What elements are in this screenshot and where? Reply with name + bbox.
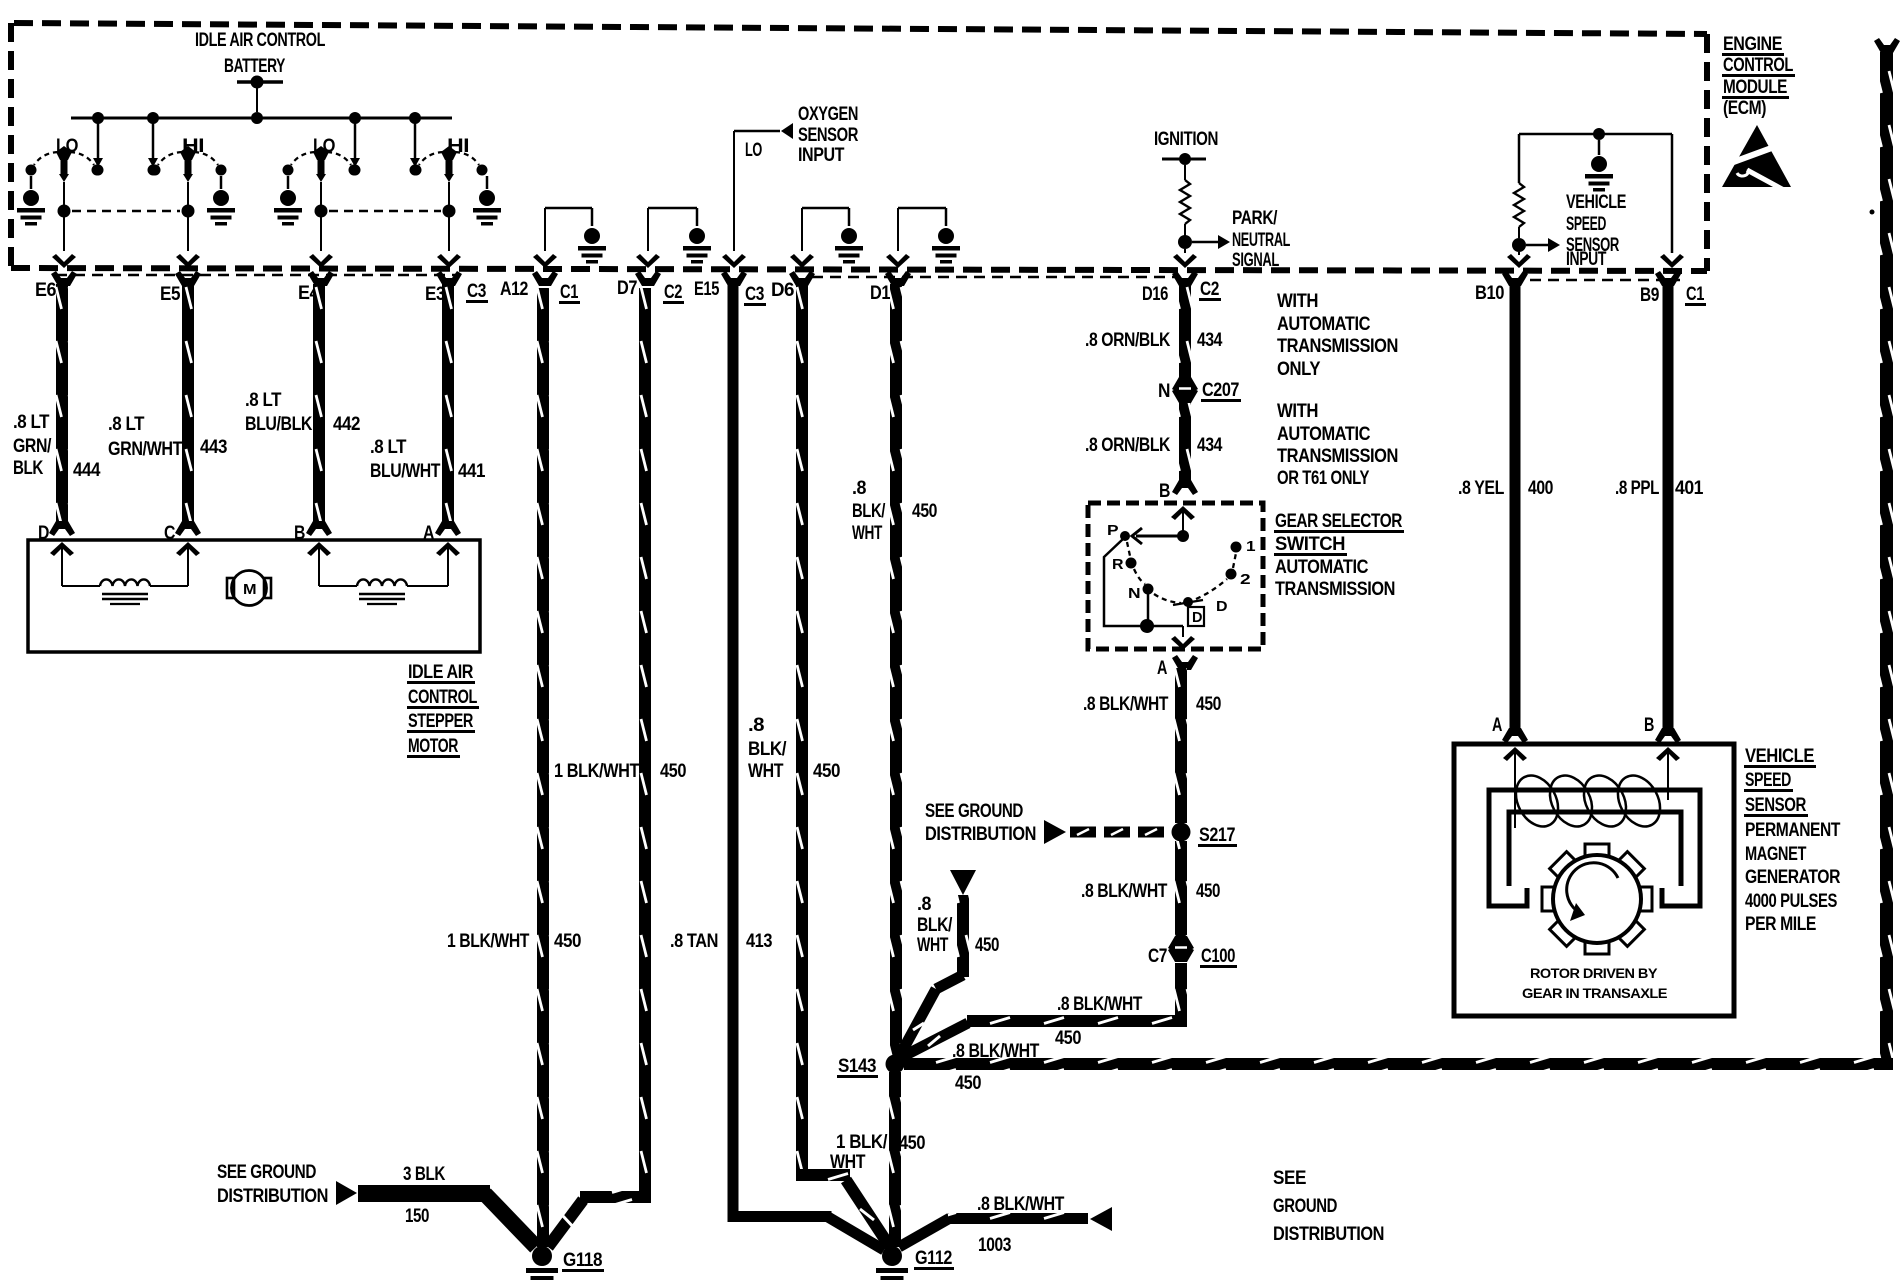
winding 1 (D-C) — [62, 585, 100, 587]
svg-text:.8 BLK/WHT: .8 BLK/WHT — [1083, 694, 1169, 715]
contact dashed curves — [291, 152, 315, 165]
TAN wire run to G112 — [728, 1211, 832, 1222]
svg-text:MODULE: MODULE — [1723, 77, 1787, 98]
svg-text:WHT: WHT — [830, 1152, 866, 1173]
off-page arrow (3 BLK) — [336, 1181, 357, 1205]
terminal at IAC motor x=62 — [49, 521, 75, 536]
arrow into pin D16 — [1173, 254, 1197, 268]
junction node — [315, 205, 328, 218]
svg-text:OXYGEN: OXYGEN — [798, 104, 858, 125]
selector wiper node — [1177, 530, 1189, 542]
svg-text:.8: .8 — [917, 894, 931, 915]
svg-text:.8 YEL: .8 YEL — [1458, 478, 1505, 499]
wire .8 BLK/WHT 450 (S217 to C100) — [1175, 841, 1187, 941]
junction node — [182, 205, 195, 218]
svg-text:A: A — [1492, 715, 1503, 736]
svg-text:BLK/: BLK/ — [917, 915, 953, 936]
svg-text:WHT: WHT — [748, 761, 784, 782]
svg-text:450: 450 — [912, 501, 937, 522]
svg-text:.8 BLK/WHT: .8 BLK/WHT — [1057, 994, 1143, 1015]
svg-text:D16: D16 — [1142, 284, 1168, 305]
splice S143 — [886, 1055, 905, 1074]
svg-text:1 BLK/WHT: 1 BLK/WHT — [447, 931, 530, 952]
right edge riser connector top — [1874, 38, 1900, 53]
arrow into ECM connector — [309, 254, 333, 268]
ECM connector terminal at x=734 — [721, 271, 747, 286]
pickup coil — [1508, 768, 1567, 834]
svg-text:443: 443 — [200, 437, 227, 458]
off-page triangle (stub) — [950, 870, 976, 895]
ECM connector terminal at x=1668 — [1655, 271, 1681, 286]
svg-text:.8 LT: .8 LT — [370, 437, 407, 458]
svg-text:SPEED: SPEED — [1745, 770, 1791, 791]
svg-text:OR T61 ONLY: OR T61 ONLY — [1277, 468, 1370, 489]
svg-text:C1: C1 — [560, 282, 579, 303]
ECM connector terminal at x=1515 — [1502, 271, 1528, 286]
rotor gear — [1542, 844, 1652, 954]
svg-text:E5: E5 — [160, 284, 181, 305]
svg-text:P: P — [1107, 522, 1119, 539]
svg-text:.8 TAN: .8 TAN — [670, 931, 718, 952]
contact D — [1183, 597, 1193, 607]
svg-text:.8 PPL: .8 PPL — [1615, 478, 1660, 499]
splice S217 — [1172, 823, 1191, 842]
motor winding arrow C — [176, 542, 200, 556]
junction node — [443, 205, 456, 218]
bus junction at x=257 — [251, 112, 263, 124]
svg-text:WHT: WHT — [917, 935, 949, 956]
wire 1 BLK/WHT 450 (C2-D7) — [639, 288, 651, 1197]
arrow up at B inside VSS — [1656, 747, 1680, 761]
ground G118 — [526, 1246, 558, 1280]
svg-text:450: 450 — [1196, 881, 1220, 902]
svg-text:C7: C7 — [1148, 946, 1167, 967]
svg-text:444: 444 — [73, 460, 101, 481]
svg-text:D: D — [38, 523, 49, 544]
svg-text:450: 450 — [1196, 694, 1221, 715]
wiper arrowhead at P — [1132, 528, 1142, 544]
contact P — [1120, 531, 1130, 541]
svg-text:BLU/WHT: BLU/WHT — [370, 461, 441, 482]
svg-text:400: 400 — [1528, 478, 1553, 499]
ECM internal ground pull at pin x=898 — [897, 208, 899, 251]
svg-text:.8 BLK/WHT: .8 BLK/WHT — [1081, 881, 1168, 902]
svg-text:E6: E6 — [35, 280, 56, 301]
svg-text:1003: 1003 — [978, 1235, 1011, 1256]
svg-text:PARK/: PARK/ — [1232, 208, 1278, 229]
svg-text:450: 450 — [1055, 1028, 1081, 1049]
svg-text:.8 ORN/BLK: .8 ORN/BLK — [1085, 330, 1171, 351]
svg-text:.8: .8 — [748, 715, 764, 736]
terminal B of gear selector switch — [1172, 480, 1198, 495]
svg-text:VEHICLE: VEHICLE — [1745, 746, 1814, 767]
svg-text:A12: A12 — [500, 279, 528, 300]
wire .8 LT GRN/WHT 443 (E5-C) — [182, 284, 194, 522]
svg-text:M: M — [243, 581, 256, 598]
motor winding arrow A — [436, 542, 460, 556]
svg-text:.8 BLK/WHT: .8 BLK/WHT — [952, 1041, 1040, 1062]
svg-text:S217: S217 — [1199, 825, 1235, 846]
magnet core — [1489, 790, 1700, 906]
svg-text:IDLE AIR: IDLE AIR — [408, 662, 474, 683]
svg-text:413: 413 — [746, 931, 772, 952]
motor symbol M — [232, 571, 267, 606]
ground for LO driver — [30, 176, 33, 189]
ECM connector terminal at x=449 — [436, 271, 462, 286]
svg-text:.8: .8 — [852, 478, 866, 499]
resistor (coil) symbol — [1180, 180, 1190, 224]
connector C207 upper half — [1172, 377, 1198, 392]
contact 2 — [1226, 569, 1237, 580]
arrow into ECM connector — [437, 254, 461, 268]
dashed link between LO/HI junction nodes (pair 2) — [329, 210, 441, 213]
wire D6 drop to G112 — [846, 1180, 890, 1247]
svg-text:CONTROL: CONTROL — [408, 687, 478, 708]
svg-text:450: 450 — [813, 761, 840, 782]
svg-text:434: 434 — [1197, 330, 1223, 351]
wire .8 BLK/WHT 450 (A to S217) — [1175, 668, 1187, 823]
VEHICLE SPEED SENSOR box — [1454, 744, 1734, 1016]
svg-text:WITH: WITH — [1277, 291, 1318, 312]
svg-text:3 BLK: 3 BLK — [403, 1164, 446, 1185]
svg-text:PER MILE: PER MILE — [1745, 914, 1816, 935]
svg-text:C1: C1 — [1686, 284, 1705, 305]
svg-text:SPEED: SPEED — [1566, 214, 1606, 235]
svg-text:1: 1 — [1246, 538, 1255, 555]
battery feed line into contact x=415 — [414, 121, 417, 160]
svg-text:.8 ORN/BLK: .8 ORN/BLK — [1085, 435, 1171, 456]
svg-text:.8 LT: .8 LT — [108, 414, 145, 435]
VSS input circuit inside ECM — [1519, 133, 1672, 136]
ECM internal ground pull at pin x=648 — [647, 208, 649, 251]
junction node — [58, 205, 71, 218]
svg-text:SENSOR: SENSOR — [798, 125, 859, 146]
wire .8 TAN 413 (C3-E15) — [728, 284, 739, 1217]
svg-text:IGNITION: IGNITION — [1154, 129, 1218, 150]
wire .8 LT BLU/BLK 442 (E4-B) — [313, 284, 325, 522]
wire .8 BLK/WHT 450 (D6) — [796, 284, 808, 1175]
svg-text:C207: C207 — [1202, 380, 1239, 401]
svg-text:401: 401 — [1675, 478, 1704, 499]
svg-text:D: D — [1192, 609, 1203, 626]
contact 1 — [1231, 542, 1242, 553]
bus junction at x=153 — [147, 112, 159, 124]
svg-text:.8 BLK/WHT: .8 BLK/WHT — [977, 1194, 1065, 1215]
wire .8 ORN/BLK 434 upper — [1179, 284, 1191, 382]
svg-text:MAGNET: MAGNET — [1745, 844, 1807, 865]
svg-text:N: N — [1128, 585, 1140, 602]
bus junction at x=98 — [92, 112, 104, 124]
off-page arrow (1003) — [1090, 1207, 1112, 1231]
svg-text:SENSOR: SENSOR — [1745, 795, 1807, 816]
svg-text:CONTROL: CONTROL — [1723, 55, 1794, 76]
svg-text:GEAR SELECTOR: GEAR SELECTOR — [1275, 511, 1403, 532]
svg-text:GRN/: GRN/ — [13, 436, 52, 457]
boxed D indicator — [1188, 607, 1204, 626]
contact dashed curves — [158, 152, 182, 165]
IDLE AIR CONTROL STEPPER MOTOR box — [28, 540, 480, 652]
svg-text:D7: D7 — [617, 278, 637, 299]
wire 1 BLK/WHT 450 (C1-A12) to G118 — [537, 288, 549, 1247]
svg-text:SEE GROUND: SEE GROUND — [217, 1162, 316, 1183]
svg-text:SEE: SEE — [1273, 1168, 1306, 1189]
wire .8 LT BLU/WHT 441 (E3-A) — [442, 284, 454, 522]
svg-text:C3: C3 — [467, 281, 486, 302]
stray printed dot — [1870, 210, 1875, 215]
svg-text:AUTOMATIC: AUTOMATIC — [1277, 314, 1371, 335]
svg-text:A: A — [1157, 658, 1168, 679]
ECM internal ground pull at pin x=545 — [544, 208, 546, 251]
terminal at IAC motor x=188 — [175, 521, 201, 536]
ground for LO driver — [287, 176, 290, 189]
svg-text:G112: G112 — [915, 1248, 952, 1269]
wire 3 BLK 150 — [358, 1185, 490, 1202]
ECM connector terminal at x=802 — [789, 271, 815, 286]
terminal B of VSS — [1655, 728, 1681, 743]
dashed detent arc segments — [1127, 542, 1130, 556]
svg-text:GROUND: GROUND — [1273, 1196, 1337, 1217]
svg-text:450: 450 — [955, 1073, 981, 1094]
dashed wire to S217 — [1070, 827, 1096, 838]
dashed link between LO/HI junction nodes (pair 1) — [72, 210, 180, 213]
park/neutral junction node — [1178, 235, 1192, 249]
svg-text:SEE GROUND: SEE GROUND — [925, 801, 1023, 822]
ECM dashed boundary box — [14, 23, 1707, 34]
ECM connector terminal at x=188 — [175, 271, 201, 286]
wire C2 drop to G118 — [548, 1200, 583, 1247]
svg-text:S143: S143 — [838, 1056, 876, 1077]
wire .8 BLK/WHT 450 horizontal to S143 — [967, 1015, 1187, 1027]
battery bus — [71, 117, 452, 120]
svg-text:434: 434 — [1197, 435, 1223, 456]
bus junction at x=415 — [409, 112, 421, 124]
svg-text:C2: C2 — [664, 282, 682, 303]
arrow into pin B9 — [1660, 254, 1684, 268]
svg-text:WITH: WITH — [1277, 401, 1318, 422]
svg-text:.8 LT: .8 LT — [13, 412, 50, 433]
wire .8 ORN/BLK 434 lower — [1179, 403, 1191, 484]
svg-text:C3: C3 — [745, 284, 764, 305]
wire .8 BLK/WHT 1003 — [899, 1218, 950, 1247]
off-page arrow OXYGEN SENSOR INPUT — [781, 123, 793, 139]
svg-text:BLU/BLK: BLU/BLK — [245, 414, 313, 435]
svg-text:BLK/: BLK/ — [852, 501, 886, 522]
wire .8 BLK/WHT 450 (D1) upper — [890, 284, 902, 1057]
svg-text:(ECM): (ECM) — [1723, 98, 1766, 119]
svg-text:MOTOR: MOTOR — [408, 736, 459, 757]
ECM connector terminal at x=321 — [308, 271, 334, 286]
battery feed line into contact x=98 — [97, 121, 100, 160]
svg-text:TRANSMISSION: TRANSMISSION — [1277, 446, 1398, 467]
svg-text:E15: E15 — [694, 279, 720, 300]
svg-text:450: 450 — [899, 1133, 925, 1154]
svg-text:2: 2 — [1240, 571, 1250, 588]
resistor (VSS input) — [1514, 183, 1524, 227]
svg-text:INPUT: INPUT — [1566, 249, 1607, 270]
ESD sensitivity symbol — [1722, 125, 1791, 187]
svg-text:441: 441 — [458, 461, 486, 482]
svg-text:A: A — [423, 523, 435, 544]
svg-text:450: 450 — [660, 761, 686, 782]
svg-text:DISTRIBUTION: DISTRIBUTION — [925, 824, 1036, 845]
connector C100 lower half — [1168, 947, 1194, 962]
svg-text:BLK: BLK — [13, 458, 44, 479]
arrow up at A inside VSS — [1503, 747, 1527, 761]
svg-text:150: 150 — [405, 1206, 429, 1227]
motor winding arrow B — [307, 542, 331, 556]
arrow into ECM connector — [176, 254, 200, 268]
contact D tangent line — [1173, 600, 1203, 605]
connector C207 lower half — [1172, 388, 1198, 403]
svg-text:442: 442 — [333, 414, 360, 435]
arrow to VEHICLE SPEED SENSOR INPUT label — [1548, 238, 1560, 252]
internal ground symbol — [1585, 156, 1613, 192]
motor winding arrow D — [50, 542, 74, 556]
ECM connector terminal at x=64 — [51, 271, 77, 286]
svg-text:DISTRIBUTION: DISTRIBUTION — [1273, 1224, 1384, 1245]
oxygen sensor input line (E15/C3) — [733, 131, 735, 251]
svg-text:B: B — [1644, 715, 1654, 736]
svg-text:TRANSMISSION: TRANSMISSION — [1275, 579, 1395, 600]
svg-text:R: R — [1112, 556, 1124, 573]
ECM connector terminal at x=648 — [635, 271, 661, 286]
battery feed line into contact x=355 — [354, 121, 357, 160]
svg-text:B9: B9 — [1640, 285, 1659, 306]
ECM connector terminal at x=1185 — [1172, 271, 1198, 286]
wire .8 BLK/WHT 450 right edge riser — [1880, 52, 1893, 1058]
svg-text:ENGINE: ENGINE — [1723, 34, 1782, 55]
svg-text:C2: C2 — [1200, 279, 1219, 300]
off-page arrow to S217 — [1044, 820, 1066, 844]
contact N — [1143, 584, 1154, 595]
ECM connector terminal at x=545 — [532, 271, 558, 286]
GEAR SELECTOR SWITCH dashed box — [1088, 503, 1263, 649]
svg-text:450: 450 — [975, 935, 999, 956]
svg-text:B: B — [1159, 481, 1170, 502]
arrow into pin B10 — [1507, 254, 1531, 268]
svg-text:STEPPER: STEPPER — [408, 711, 474, 732]
svg-text:SWITCH: SWITCH — [1275, 534, 1345, 555]
wire .8 BLK/WHT 450 long run to right edge — [904, 1058, 1893, 1070]
ECM internal ground pull at pin x=802 — [801, 208, 803, 251]
svg-text:AUTOMATIC: AUTOMATIC — [1277, 424, 1371, 445]
connector body thin dashed line (right C1 connector) — [1512, 279, 1680, 282]
svg-text:G118: G118 — [563, 1250, 602, 1271]
right edge riser corner — [1880, 1056, 1893, 1070]
svg-text:INPUT: INPUT — [798, 145, 845, 166]
svg-text:1 BLK/: 1 BLK/ — [836, 1132, 888, 1153]
svg-text:D6: D6 — [771, 280, 794, 301]
svg-text:ONLY: ONLY — [1277, 359, 1321, 380]
svg-text:B10: B10 — [1475, 283, 1504, 304]
battery feed node — [237, 80, 283, 84]
contact R — [1126, 558, 1137, 569]
svg-text:C: C — [164, 523, 176, 544]
svg-text:BLK/: BLK/ — [748, 739, 787, 760]
VSS input node — [1512, 238, 1526, 252]
battery feed line into contact x=153 — [152, 121, 155, 160]
arrow to PARK/NEUTRAL SIGNAL — [1218, 235, 1230, 249]
winding 2 (B-A) — [319, 585, 357, 587]
ground G112 — [876, 1246, 908, 1280]
terminal A below switch — [1172, 655, 1198, 670]
connector body thin dashed line (C3 connector, E-row) — [56, 274, 455, 277]
svg-text:1 BLK/WHT: 1 BLK/WHT — [554, 761, 640, 782]
wire .8 BLK/WHT 450 below C100 — [1175, 963, 1187, 1021]
svg-text:TRANSMISSION: TRANSMISSION — [1277, 336, 1398, 357]
svg-text:AUTOMATIC: AUTOMATIC — [1275, 557, 1369, 578]
svg-text:VEHICLE: VEHICLE — [1566, 192, 1626, 213]
svg-text:BATTERY: BATTERY — [224, 56, 286, 77]
wire .8 LT GRN/BLK 444 (E6-D) — [56, 284, 68, 522]
terminal at IAC motor x=319 — [306, 521, 332, 536]
ECM connector terminal at x=898 — [885, 271, 911, 286]
svg-text:GENERATOR: GENERATOR — [1745, 867, 1841, 888]
svg-text:LO: LO — [745, 140, 762, 161]
svg-text:GEAR IN TRANSAXLE: GEAR IN TRANSAXLE — [1522, 986, 1668, 1001]
svg-text:DISTRIBUTION: DISTRIBUTION — [217, 1186, 328, 1207]
svg-text:IDLE AIR CONTROL: IDLE AIR CONTROL — [195, 30, 326, 51]
stub wire .8 BLK/WHT 450 — [957, 895, 969, 977]
ground for HI driver — [486, 176, 489, 189]
wire .8 YEL 400 (B10) — [1510, 284, 1521, 730]
svg-text:GRN/WHT: GRN/WHT — [108, 439, 183, 460]
svg-text:D: D — [1216, 598, 1228, 615]
contact dashed curves — [419, 152, 443, 165]
terminal A of VSS — [1502, 728, 1528, 743]
svg-text:WHT: WHT — [852, 523, 883, 544]
svg-text:ROTOR DRIVEN BY: ROTOR DRIVEN BY — [1530, 966, 1658, 981]
svg-text:N: N — [1158, 381, 1170, 402]
arrow down to terminal A — [1171, 636, 1195, 650]
contact dashed curves — [34, 152, 58, 165]
connector C100 upper half — [1168, 936, 1194, 951]
arrow into ECM connector — [52, 254, 76, 268]
svg-text:B: B — [294, 523, 305, 544]
wiper arm to A — [1104, 539, 1146, 626]
svg-text:NEUTRAL: NEUTRAL — [1232, 230, 1291, 251]
svg-text:SIGNAL: SIGNAL — [1232, 250, 1280, 271]
svg-text:PERMANENT: PERMANENT — [1745, 820, 1841, 841]
svg-text:450: 450 — [554, 931, 581, 952]
ground for HI driver — [220, 176, 223, 189]
svg-text:D1: D1 — [870, 283, 891, 304]
svg-text:C100: C100 — [1201, 946, 1235, 967]
svg-text:4000 PULSES: 4000 PULSES — [1745, 891, 1837, 912]
terminal at IAC motor x=448 — [435, 521, 461, 536]
junction to output A — [1140, 619, 1154, 633]
rotation arrow — [1567, 863, 1618, 913]
connector body thin dashed line (C2 connector, D6-D16) — [812, 276, 1176, 279]
arrow up at B inside switch — [1171, 506, 1195, 520]
wire .8 PPL 401 (B9) — [1663, 284, 1674, 730]
svg-text:.8 LT: .8 LT — [245, 390, 282, 411]
wire 1 BLK/WHT 450 lower to G112 — [889, 1072, 901, 1247]
bus junction at x=355 — [349, 112, 361, 124]
